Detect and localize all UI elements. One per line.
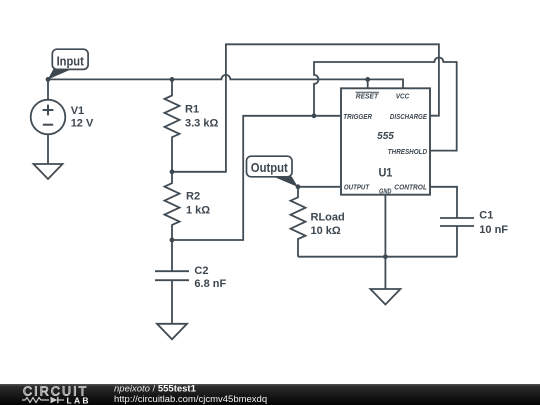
pin label TRIGGER: [343, 112, 372, 121]
svg-text:R2: R2: [186, 191, 200, 203]
resistor R2: [165, 172, 180, 240]
label U1: [378, 166, 392, 180]
svg-text:555: 555: [377, 130, 394, 142]
wire input net (V1+ to R1/RESET/VCC): [48, 75, 403, 88]
svg-text:VCC: VCC: [396, 92, 410, 101]
label RLoad 10 kOhm: [311, 211, 345, 237]
svg-text:C1: C1: [479, 210, 493, 222]
footer url line: [114, 394, 267, 405]
node RESET stub junction: [365, 77, 370, 82]
wire threshold net: [314, 58, 457, 151]
logo diode symbol: [51, 397, 65, 403]
wire control net: [430, 187, 457, 218]
pin label DISCHARGE: [390, 112, 428, 121]
svg-text:DISCHARGE: DISCHARGE: [390, 112, 428, 121]
svg-text:V1: V1: [71, 105, 84, 117]
capacitor C2: [155, 240, 189, 324]
footer bar: [0, 384, 540, 405]
node R1 top: [170, 77, 175, 82]
svg-text:C2: C2: [194, 265, 208, 277]
label C2 6.8 nF: [194, 265, 226, 290]
svg-text:U1: U1: [378, 166, 392, 180]
pin label RESET with overline: [356, 92, 379, 101]
svg-text:npeixoto / 555test1: npeixoto / 555test1: [114, 384, 197, 395]
logo LAB text: [67, 395, 91, 405]
node R1/R2 junction: [170, 169, 175, 174]
svg-text:GND: GND: [379, 186, 392, 195]
wire bottom rail: [298, 256, 457, 258]
svg-text:CONTROL: CONTROL: [394, 182, 427, 191]
logo CIRCUIT text: [23, 385, 88, 399]
wire trigger net: [172, 116, 341, 240]
wire gnd pin stub: [384, 195, 386, 289]
svg-text:Output: Output: [251, 161, 289, 175]
label R1 3.3 kOhm: [185, 103, 218, 129]
wire discharge net: [172, 44, 439, 172]
svg-text:12 V: 12 V: [71, 118, 94, 130]
node R2/C2/trigger junction: [170, 238, 175, 243]
svg-text:THRESHOLD: THRESHOLD: [388, 147, 428, 156]
footer author line: [114, 384, 197, 395]
node input at V1 top: [46, 77, 51, 82]
resistor R1: [165, 79, 180, 171]
wire reset stub: [367, 79, 369, 88]
op-amp/timer U1 555 box: [341, 88, 430, 194]
node gnd junction: [383, 254, 388, 259]
svg-text:TRIGGER: TRIGGER: [343, 112, 372, 121]
svg-text:10 kΩ: 10 kΩ: [311, 225, 341, 237]
svg-text:RESET: RESET: [356, 92, 379, 101]
pin label GND: [379, 186, 392, 195]
pin label VCC: [396, 92, 410, 101]
flag Output: [247, 156, 299, 187]
wire V1 top stub: [47, 79, 49, 99]
svg-text:6.8 nF: 6.8 nF: [194, 278, 226, 290]
svg-text:3.3 kΩ: 3.3 kΩ: [185, 117, 218, 129]
flag Input: [48, 49, 89, 79]
ground below V1: [34, 164, 63, 179]
overline of RESET: [356, 91, 380, 93]
svg-text:OUTPUT: OUTPUT: [344, 182, 370, 191]
wire V1 bottom stub: [47, 134, 49, 164]
capacitor C1: [440, 218, 474, 257]
svg-text:R1: R1: [185, 103, 199, 115]
svg-text:http://circuitlab.com/cjcmv45b: http://circuitlab.com/cjcmv45bmexdq: [114, 394, 267, 405]
svg-text:10 nF: 10 nF: [479, 224, 508, 236]
svg-text:LAB: LAB: [67, 395, 91, 405]
voltage source V1: [31, 100, 66, 135]
label 555: [377, 130, 394, 142]
ground below C2: [157, 324, 187, 340]
svg-text:Input: Input: [57, 54, 85, 68]
logo resistor zigzag: [22, 398, 49, 403]
label V1 12 V: [71, 105, 94, 130]
svg-text:RLoad: RLoad: [311, 211, 345, 223]
svg-text:1 kΩ: 1 kΩ: [186, 205, 210, 217]
label C1 10 nF: [479, 210, 508, 236]
node trigger/threshold junction: [312, 113, 317, 118]
pin label OUTPUT: [344, 182, 370, 191]
pin label THRESHOLD: [388, 147, 428, 156]
wire output net: [298, 186, 341, 188]
pin label CONTROL: [394, 182, 427, 191]
ground below 555: [370, 289, 400, 305]
label R2 1 kOhm: [186, 191, 210, 217]
resistor RLoad: [291, 187, 306, 257]
node output: [296, 184, 301, 189]
